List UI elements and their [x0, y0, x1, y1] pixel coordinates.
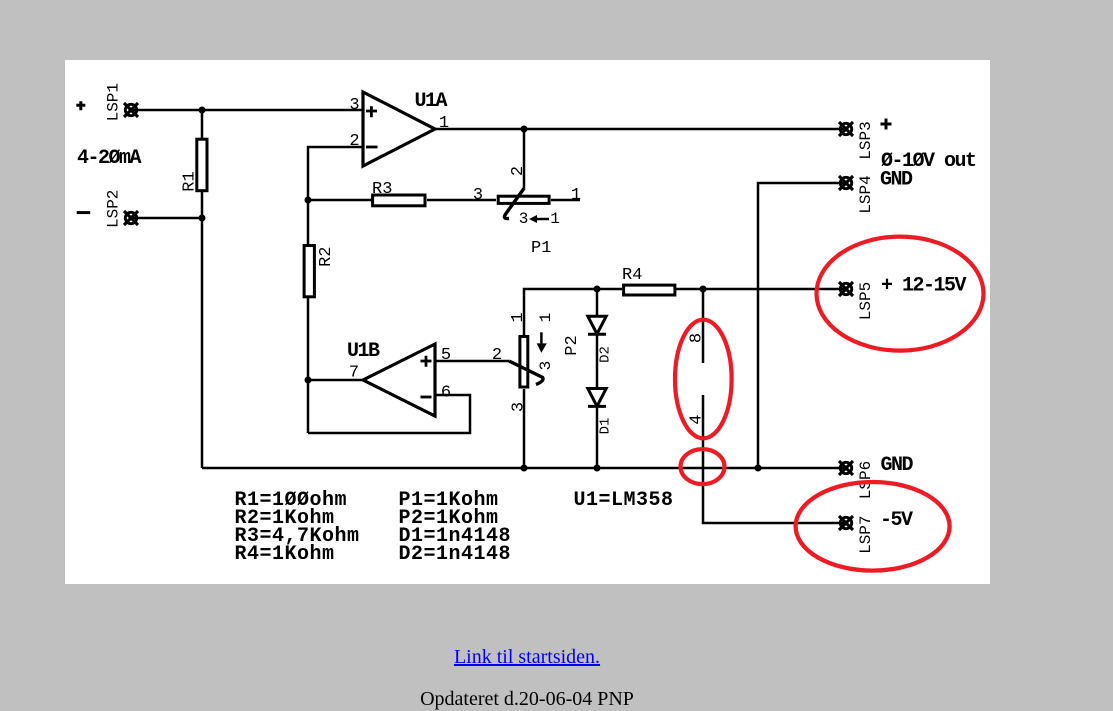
- svg-text:U1B: U1B: [347, 340, 380, 363]
- terminal LSP4: [839, 176, 853, 190]
- svg-text:1: 1: [571, 186, 581, 205]
- resistor R1: [197, 139, 207, 191]
- op-amp U1A plus mark: [366, 106, 377, 117]
- wire LSP2 to R1 bottom: [131, 217, 202, 220]
- highlight ellipse -5V: [796, 482, 950, 571]
- svg-text:GND: GND: [880, 169, 913, 192]
- highlight ellipse pins 8/4: [675, 320, 732, 439]
- svg-text:LSP4: LSP4: [857, 175, 875, 213]
- wire P1 pin1 stub: [551, 199, 580, 202]
- svg-text:3: 3: [519, 210, 529, 228]
- junction node D1 bus: [594, 465, 601, 472]
- svg-text:4-2ØmA: 4-2ØmA: [77, 147, 142, 170]
- svg-text:R2: R2: [317, 246, 336, 266]
- resistor R3: [373, 195, 425, 206]
- svg-text:1: 1: [509, 312, 528, 322]
- footer link: [0, 646, 1054, 669]
- junction node R4/pin8: [700, 286, 707, 293]
- label plus left: [76, 101, 85, 110]
- junction node D2/R4 top: [594, 286, 601, 293]
- svg-text:6: 6: [441, 384, 451, 403]
- svg-text:D1: D1: [597, 418, 613, 435]
- wire pin4 to LSP7: [703, 395, 846, 523]
- svg-text:2: 2: [509, 166, 528, 176]
- diode D2: [588, 316, 606, 334]
- wire P1 wiper drop: [523, 129, 526, 188]
- wire R1 vertical rail: [201, 110, 204, 468]
- svg-text:U1A: U1A: [415, 90, 448, 113]
- wire U1B pin6 feedback: [308, 395, 470, 433]
- svg-text:R1: R1: [181, 171, 200, 191]
- svg-text:LSP2: LSP2: [105, 190, 123, 228]
- terminal LSP5: [839, 282, 853, 296]
- svg-text:8: 8: [687, 333, 706, 343]
- wire R3 left: [308, 199, 372, 202]
- wire R2 vertical: [307, 200, 310, 433]
- schematic image panel: [65, 60, 990, 584]
- op-amp U1B: [363, 344, 435, 416]
- wire D2 top: [596, 289, 599, 316]
- potentiometer P2 wiper: [509, 361, 543, 385]
- svg-text:U1=LM358: U1=LM358: [574, 489, 674, 512]
- wire P2 bottom: [523, 389, 526, 468]
- svg-text:R4=1Kohm: R4=1Kohm: [235, 543, 335, 566]
- junction node GND bus: [755, 465, 762, 472]
- wire U1A pin2 to R3 node: [308, 147, 364, 200]
- wire LSP4 GND drop: [758, 183, 846, 468]
- diode D1: [588, 389, 606, 407]
- wire pin8: [702, 289, 705, 363]
- P2 annotation arrow: [537, 332, 547, 353]
- wire LSP1 to U1A pin3: [131, 109, 364, 112]
- svg-text:2: 2: [492, 346, 502, 365]
- wire D2 to D1: [596, 335, 599, 389]
- svg-text:1: 1: [537, 313, 555, 323]
- svg-text:LSP5: LSP5: [857, 282, 875, 320]
- svg-text:D2=1n4148: D2=1n4148: [399, 543, 512, 566]
- svg-text:3: 3: [349, 96, 359, 115]
- op-amp U1B minus mark: [421, 396, 432, 399]
- resistor R4: [624, 285, 675, 295]
- label plus right: [881, 119, 892, 130]
- svg-text:GND: GND: [881, 454, 914, 477]
- terminal LSP7: [839, 516, 853, 530]
- svg-text:7: 7: [349, 364, 359, 383]
- wire U1B pin7: [308, 379, 363, 382]
- potentiometer P2 body: [520, 337, 528, 388]
- terminal LSP6: [839, 461, 853, 475]
- terminal LSP2: [124, 211, 138, 225]
- resistor R2: [304, 246, 314, 297]
- wire U1B pin5: [435, 360, 509, 363]
- svg-text:-5V: -5V: [880, 509, 913, 532]
- junction node P2 bottom bus: [521, 465, 528, 472]
- svg-text:LSP7: LSP7: [857, 515, 875, 553]
- potentiometer P1 body: [498, 196, 549, 203]
- svg-text:+ 12-15V: + 12-15V: [881, 275, 967, 298]
- svg-text:LSP3: LSP3: [857, 121, 875, 159]
- wire bottom bus: [202, 467, 846, 470]
- svg-text:1: 1: [550, 210, 560, 228]
- op-amp U1A minus mark: [366, 146, 378, 149]
- op-amp U1A: [363, 92, 435, 166]
- svg-text:R3: R3: [372, 180, 392, 199]
- potentiometer P1 wiper: [504, 188, 524, 219]
- svg-text:3: 3: [510, 402, 529, 412]
- svg-text:P1: P1: [531, 239, 551, 258]
- wire U1A output to LSP3: [435, 128, 846, 131]
- junction node U1B out: [305, 377, 312, 384]
- svg-text:3: 3: [537, 361, 555, 371]
- wire R3 to P1: [427, 199, 496, 202]
- highlight circle bus crossing: [681, 449, 725, 484]
- svg-text:2: 2: [349, 132, 359, 151]
- wire P2 top: [524, 289, 622, 335]
- svg-text:P2: P2: [563, 335, 582, 355]
- svg-text:1: 1: [439, 114, 449, 133]
- wire R4 right to LSP5: [676, 288, 846, 291]
- junction node LSP2/R1: [199, 215, 206, 222]
- junction node LSP1/R1: [199, 107, 206, 114]
- label minus left: [77, 211, 91, 214]
- svg-text:5: 5: [441, 346, 451, 365]
- svg-text:LSP1: LSP1: [105, 83, 123, 121]
- wire D1 bottom: [596, 407, 599, 468]
- op-amp U1B plus mark: [421, 356, 432, 367]
- svg-text:R4: R4: [622, 266, 642, 285]
- terminal LSP1: [124, 103, 138, 117]
- footer updated text: [0, 688, 1054, 711]
- svg-text:4: 4: [687, 414, 706, 424]
- svg-text:3: 3: [473, 186, 483, 205]
- terminal LSP3: [839, 122, 853, 136]
- junction node U1A out / P1: [521, 126, 528, 133]
- junction node R2/R3: [305, 197, 312, 204]
- svg-text:D2: D2: [597, 346, 613, 363]
- highlight ellipse +12-15V: [817, 237, 984, 351]
- P1 annotation arrow: [529, 215, 549, 223]
